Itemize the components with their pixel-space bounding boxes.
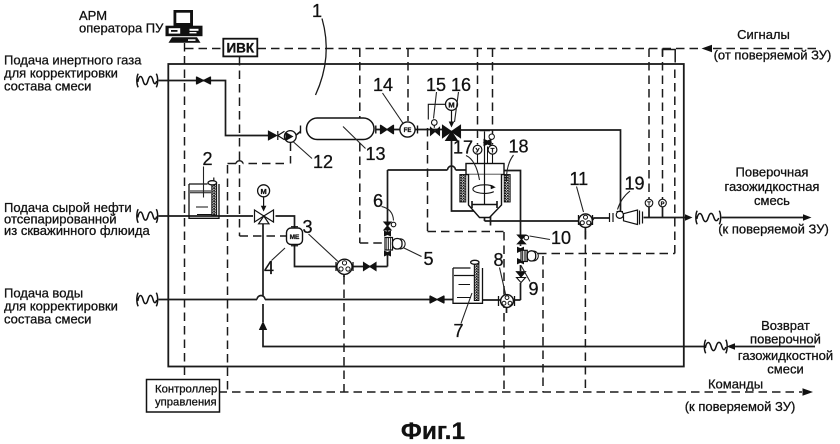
- leader line of label 1 (long arc): [316, 19, 327, 96]
- jog connecting 675 riser to signal bus: [663, 50, 676, 63]
- gate valve between pump3 and pump5: [364, 263, 377, 271]
- svg-text:7: 7: [454, 321, 464, 341]
- outlet flange tick: [490, 217, 492, 226]
- svg-text:M: M: [260, 187, 266, 196]
- mixer tank body and cone: [469, 175, 502, 218]
- svg-text:смеси: смеси: [767, 362, 803, 377]
- valve 10 with actuator circle: [518, 235, 529, 244]
- mass flowmeter ME 4: [287, 227, 303, 246]
- leader of label 14: [383, 93, 404, 124]
- leader of label 8: [500, 268, 506, 295]
- riser x520 segments between components 9,10: [504, 171, 521, 272]
- svg-text:10: 10: [551, 228, 571, 248]
- svg-text:оператора ПУ: оператора ПУ: [79, 20, 164, 35]
- hop of 12-drop over riser 239.5: [236, 161, 243, 164]
- water pipe: valve to vessel 7 to pump 8: [444, 299, 501, 302]
- return riser with up arrow, hop over water line: [262, 223, 264, 323]
- svg-text:14: 14: [373, 75, 393, 95]
- leader of label 11: [577, 187, 584, 213]
- svg-text:состава смеси: состава смеси: [4, 79, 91, 94]
- leader of label 5: [403, 248, 422, 257]
- operator workstation computer icon: [166, 10, 203, 52]
- svg-text:8: 8: [494, 250, 504, 270]
- stirrer shaft: [480, 131, 491, 204]
- check valve on gas line: [269, 131, 285, 140]
- water vessel 7: [453, 260, 483, 303]
- output arrow at boundary: [685, 214, 693, 221]
- command bus dashed line: [219, 391, 803, 393]
- leader of label 6: [382, 207, 394, 221]
- output pipe pump11 to venturi 19: [593, 218, 610, 220]
- leader of label 7: [461, 293, 472, 324]
- heating jacket 18 left strip: [460, 175, 466, 203]
- water pump 8: [499, 295, 515, 308]
- valve 6 with actuator circle: [384, 222, 396, 230]
- leader of label 18: [506, 155, 513, 181]
- pump 8 bottom stem: [506, 308, 508, 314]
- hose symbol output: [696, 211, 721, 225]
- risers to output T/P sensors: [648, 49, 650, 200]
- unit boundary rectangle: [168, 64, 684, 367]
- actuator M of valve 16 with bracket to 15: [428, 98, 457, 127]
- hose symbol water inlet: [137, 293, 158, 307]
- svg-text:6: 6: [373, 191, 383, 211]
- oil pipe: pump3 to riser of pump 5: [353, 266, 388, 268]
- oil pipe: valve to ME flowmeter to pump 3: [276, 216, 337, 267]
- svg-text:12: 12: [313, 152, 333, 172]
- svg-text:19: 19: [625, 174, 645, 194]
- riser from valve 15 actuator down: [428, 128, 505, 392]
- riser from check-valve circle 12: [228, 143, 291, 393]
- svg-text:газожидкостная: газожидкостная: [725, 179, 820, 194]
- riser from pump 11: [584, 231, 586, 392]
- gas pipe valve16 to bypass corner and down to nozzle 19: [460, 130, 621, 212]
- svg-text:(к поверяемой ЗУ): (к поверяемой ЗУ): [685, 399, 796, 414]
- svg-text:17: 17: [453, 138, 473, 158]
- svg-text:11: 11: [570, 169, 589, 189]
- output pipe venturi to boundary arrow: [644, 217, 687, 219]
- svg-text:Сигналы: Сигналы: [737, 27, 790, 42]
- svg-text:состава смеси: состава смеси: [4, 312, 91, 327]
- check valve under pump 9: [517, 272, 526, 283]
- hop arc of mixture pipe: [448, 166, 456, 170]
- mixture pipe to tank lid (hop over gas downpipe): [388, 169, 467, 171]
- svg-text:Т: Т: [491, 147, 495, 154]
- leader of label 12: [294, 142, 313, 159]
- tank vent valve with circle: [484, 134, 494, 164]
- svg-text:(от поверяемой ЗУ): (от поверяемой ЗУ): [714, 48, 832, 63]
- svg-text:смесь: смесь: [754, 193, 790, 208]
- svg-text:ME: ME: [290, 234, 300, 241]
- impeller bar: [472, 201, 497, 208]
- leader of label 17: [466, 156, 480, 181]
- mixture riser through pump 5 and valve 6: [387, 170, 389, 267]
- tank outlet pipe: [485, 218, 580, 222]
- svg-text:Т: Т: [647, 202, 651, 208]
- svg-text:FE: FE: [404, 128, 412, 134]
- flow element 14: [400, 122, 418, 137]
- valve after receiver 13: [381, 125, 394, 134]
- return pipe up-arrow: [259, 321, 267, 330]
- svg-text:Команды: Команды: [708, 377, 763, 392]
- riser from pump 3: [343, 276, 345, 392]
- riser to pump 5 motor: [360, 49, 385, 244]
- tank sensor circles: [473, 145, 497, 163]
- svg-text:поверочной: поверочной: [750, 332, 821, 347]
- hose symbol return: [704, 340, 727, 354]
- svg-text:15: 15: [426, 75, 446, 95]
- svg-text:Контроллер: Контроллер: [155, 384, 217, 396]
- receiver tank 13: [307, 118, 375, 140]
- screw pump 5: [384, 231, 405, 257]
- pump 11 bottom stem: [584, 228, 586, 240]
- riser to flow element 14: [407, 49, 409, 122]
- three-way valve 16: [443, 125, 461, 140]
- valve 15 with actuator circle: [431, 120, 440, 136]
- svg-text:из скважинного флюида: из скважинного флюида: [4, 223, 150, 238]
- receiver nipples: [301, 126, 376, 134]
- inert gas feed pipe: [159, 81, 269, 136]
- leader of label 3: [309, 234, 339, 262]
- signal bus (to IVK) horizontal dashed line: [185, 48, 223, 50]
- circle valve 12 with check cone: [284, 131, 296, 143]
- svg-text:3: 3: [303, 217, 313, 237]
- screw pump 9: [517, 247, 538, 265]
- output pipe outside with hose: [722, 217, 807, 219]
- actuator M of oil three-way valve: [258, 185, 270, 212]
- stirrer ellipse: [473, 185, 494, 194]
- svg-text:ИВК: ИВК: [226, 41, 254, 56]
- svg-text:Поверочная: Поверочная: [736, 165, 809, 180]
- output sensors stems: [649, 207, 663, 218]
- svg-text:управления: управления: [155, 397, 217, 409]
- oil feed pipe: [159, 215, 254, 217]
- dosing pump 3: [336, 259, 353, 274]
- water feed pipe (hop over return riser): [159, 299, 431, 301]
- riser from computer (APM): [184, 56, 186, 378]
- svg-text:5: 5: [424, 249, 434, 269]
- heating jacket 18 right strip: [504, 175, 510, 203]
- return arrow (pointing left into unit): [727, 343, 736, 350]
- output final arrow: [803, 214, 812, 221]
- svg-text:9: 9: [529, 279, 539, 299]
- riser from mixer pump 9 control: [542, 256, 544, 392]
- mixture pump 11: [579, 214, 593, 228]
- return pipe (Vozvrat): [263, 330, 815, 347]
- pipe pump8 to riser x520: [515, 283, 521, 300]
- leader of label 4: [272, 248, 286, 261]
- svg-text:4: 4: [264, 258, 274, 278]
- oil three-way valve: [255, 210, 274, 224]
- hop arc of water pipe: [257, 296, 265, 300]
- IVK box: [223, 39, 257, 57]
- leader of label 15: [434, 92, 437, 119]
- output sensor T: [645, 199, 653, 207]
- leader of label 9: [521, 266, 530, 282]
- leader of label 19: [618, 191, 631, 210]
- mixer tank 17: lid: [466, 164, 504, 175]
- svg-text:1: 1: [312, 1, 322, 21]
- riser from IVK down to ME-4 flowmeter: [240, 57, 287, 236]
- water feed valve before vessel 7: [430, 296, 444, 304]
- svg-text:(к поверяемой ЗУ): (к поверяемой ЗУ): [718, 222, 829, 237]
- svg-text:18: 18: [509, 137, 529, 157]
- svg-text:Фиг.1: Фиг.1: [401, 418, 465, 444]
- arrow of command bus (pointing right): [803, 388, 814, 396]
- risers to tank sensors 17: [477, 49, 479, 145]
- arrow of signal bus (pointing left): [702, 45, 713, 53]
- oil feed vessel 2: [189, 178, 219, 219]
- valve 16 bottom port pipe down to tank bottom: [452, 139, 475, 211]
- output sensor P: [659, 199, 667, 207]
- svg-text:16: 16: [451, 75, 471, 95]
- svg-text:2: 2: [203, 149, 213, 169]
- pump 3 bottom stem: [343, 275, 345, 278]
- hose symbol oil inlet: [137, 209, 158, 223]
- leader of label 10: [530, 236, 551, 240]
- svg-text:13: 13: [366, 144, 386, 164]
- leader of label 2: [203, 167, 205, 198]
- leader of label 13: [343, 127, 366, 149]
- gas inlet valve: [197, 77, 211, 85]
- hose symbol gas inlet: [137, 74, 158, 88]
- controller box: [147, 380, 220, 413]
- svg-text:Р: Р: [661, 202, 665, 208]
- gas pipe through receiver 13 to valve 16: [285, 130, 444, 136]
- leader of label 16: [455, 92, 459, 122]
- flow nozzle 19 with valve circle: [610, 210, 643, 225]
- svg-text:M: M: [448, 100, 454, 109]
